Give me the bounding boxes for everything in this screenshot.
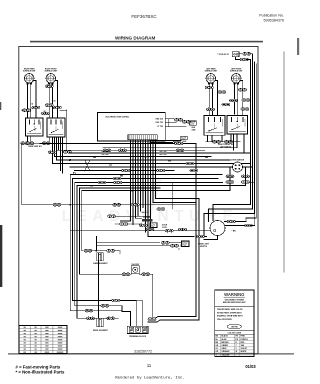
svg-text:SURFACE UNIT: SURFACE UNIT xyxy=(23,70,36,73)
wire to bus xyxy=(247,60,251,63)
terminal block TB xyxy=(127,326,148,333)
svg-text:* TO ELEC IN: * TO ELEC IN xyxy=(217,54,229,56)
electronic oven control EOC xyxy=(97,113,165,141)
svg-text:GRAY: GRAY xyxy=(222,347,228,350)
svg-text:SURFACE UNIT: SURFACE UNIT xyxy=(205,70,218,73)
infinite switch SW4 xyxy=(227,116,248,135)
bus horizontal y147.7 xyxy=(103,147,237,149)
left front surface unit SU2 xyxy=(45,68,58,84)
wires EOC to right connectors xyxy=(165,118,173,120)
power connector J1 xyxy=(232,52,239,57)
page edge artifacts xyxy=(297,38,299,55)
oven lamp assembly xyxy=(131,266,139,274)
connector pairs on bus lines xyxy=(103,149,111,152)
svg-text:BAKE ELEMENT: BAKE ELEMENT xyxy=(93,262,108,265)
oval pairs on left column xyxy=(48,151,56,154)
model table xyxy=(19,326,67,354)
wires SU3 to switch SW3 xyxy=(208,84,210,116)
bake element coil xyxy=(97,252,103,254)
main diagram border box xyxy=(19,47,258,354)
left rear surface unit SU1 xyxy=(23,67,36,84)
wire from right into terminal block xyxy=(155,317,196,319)
lamp right connectors xyxy=(245,224,253,227)
svg-text:10A 125V: 10A 125V xyxy=(131,263,140,266)
wires turning from strip xyxy=(121,220,131,222)
wires SU1 to switch SW1 xyxy=(27,84,29,118)
svg-text:Publication No.: Publication No. xyxy=(259,14,284,18)
svg-text:BROWN: BROWN xyxy=(222,342,230,344)
connector pair second row xyxy=(236,57,241,60)
svg-text:OR/YW: OR/YW xyxy=(231,327,238,329)
svg-text:OVEN VENT NO.: OVEN VENT NO. xyxy=(28,146,43,148)
header rule xyxy=(30,41,263,43)
horizontal bus wires xyxy=(40,143,175,145)
connector pairs above switches xyxy=(23,109,31,112)
lamp bottom line xyxy=(204,236,207,238)
svg-text:YELLOW: YELLOW xyxy=(222,354,230,356)
tiny wire gauge labels xyxy=(93,157,96,158)
broil element connectors xyxy=(87,317,95,320)
svg-text:PINK: PINK xyxy=(241,336,246,338)
sensor lead wires xyxy=(70,174,222,176)
page margin artifact line xyxy=(283,52,285,272)
svg-text:01/03: 01/03 xyxy=(245,364,256,369)
infinite switch SW3 xyxy=(204,116,225,136)
door lock switch box xyxy=(142,219,153,222)
oval row below left switches xyxy=(21,142,29,145)
wire J1 top to right bus xyxy=(249,54,252,60)
svg-text:SURFACE UNIT: SURFACE UNIT xyxy=(45,70,58,73)
oven lamp motor circle xyxy=(210,221,225,236)
L1 terminal xyxy=(182,241,190,247)
lamp connector ovals xyxy=(122,273,130,276)
bake element feed junction xyxy=(84,250,92,253)
lower horizontal from left with ovals xyxy=(47,204,70,206)
watermark leadventure logo xyxy=(136,178,162,217)
wires descending from EOC strip xyxy=(130,140,132,221)
right bus wires xyxy=(250,60,252,205)
lamp bottom wire xyxy=(204,236,218,240)
svg-text:* BK: * BK xyxy=(232,231,237,233)
svg-text:SWITCH: SWITCH xyxy=(200,246,208,248)
footer rule xyxy=(8,353,294,354)
ground strap G1 xyxy=(190,121,196,125)
svg-text:11: 11 xyxy=(147,363,152,368)
svg-text:LT 17B: LT 17B xyxy=(157,126,163,128)
svg-text:LOCK SW: LOCK SW xyxy=(143,217,151,219)
caution oval xyxy=(227,324,241,329)
EOC connector strip P1 xyxy=(128,135,157,140)
right rear surface unit SU3 xyxy=(205,67,218,84)
svg-text:ELECTRONIC OVEN CONTROL: ELECTRONIC OVEN CONTROL xyxy=(106,116,130,118)
svg-text:Rendered by LeadVenture, Inc.: Rendered by LeadVenture, Inc. xyxy=(115,376,185,381)
crossing wires xyxy=(85,160,90,171)
svg-text:WIRING DIAGRAM: WIRING DIAGRAM xyxy=(115,36,155,41)
connector pair below SU2 xyxy=(45,85,53,88)
svg-text:RED 15A: RED 15A xyxy=(156,117,164,120)
wires SU2 to switch SW2 xyxy=(48,84,50,118)
connector pair right of J1 xyxy=(239,53,242,55)
svg-text:TRACER WIRE: WIRE COLOR: TRACER WIRE: WIRE COLOR xyxy=(217,308,243,311)
nested corner wires going down-left xyxy=(70,175,85,311)
svg-text:BEFORE SERVICING UNIT: BEFORE SERVICING UNIT xyxy=(223,302,246,304)
left column wires from switches xyxy=(52,137,54,164)
svg-text:VIOLET: VIOLET xyxy=(241,348,248,350)
svg-text:LOCK: LOCK xyxy=(162,227,168,229)
L1 feed horizontals xyxy=(96,242,159,244)
connector pairs right units xyxy=(205,86,213,89)
svg-text:FEF367BSC: FEF367BSC xyxy=(131,14,157,19)
svg-text:* = Non-Illustrated Parts: * = Non-Illustrated Parts xyxy=(16,370,65,375)
svg-text:PURPLE: PURPLE xyxy=(241,339,249,341)
stubs from switch bottoms xyxy=(27,136,29,143)
junction dots xyxy=(69,159,71,161)
svg-text:L1: L1 xyxy=(178,249,180,251)
sensor leads xyxy=(230,167,233,191)
svg-text:LEFT SW NO.: LEFT SW NO. xyxy=(220,147,232,149)
door lock assembly box xyxy=(150,223,157,228)
svg-text:316250772: 316250772 xyxy=(134,349,152,353)
wire along left border xyxy=(22,143,47,205)
svg-text:BROIL ELEMENT: BROIL ELEMENT xyxy=(93,330,109,332)
svg-text:EXAMPLE: ORGB WIRE WITH: EXAMPLE: ORGB WIRE WITH xyxy=(217,315,243,318)
svg-text:NOTED FIRST, STRIPE NEXT.: NOTED FIRST, STRIPE NEXT. xyxy=(217,312,242,314)
wires SU4 to switch SW4 xyxy=(234,84,236,114)
svg-text:TERMINAL BLOCK: TERMINAL BLOCK xyxy=(129,335,147,338)
svg-text:YELLOW STRIPE.: YELLOW STRIPE. xyxy=(217,319,233,321)
svg-text:SURFACE UNIT: SURFACE UNIT xyxy=(230,70,243,73)
bus turn wires to lamp xyxy=(213,205,251,221)
warning box xyxy=(215,290,254,357)
svg-text:BLUE: BLUE xyxy=(222,339,228,341)
lower pair with box xyxy=(150,140,181,142)
svg-text:GREEN: GREEN xyxy=(222,345,229,347)
oval row below right switches xyxy=(213,141,221,144)
svg-text:ORANGE: ORANGE xyxy=(222,350,231,353)
lock wires xyxy=(115,223,142,225)
svg-text:GND: GND xyxy=(192,129,197,131)
infinite switch SW1 xyxy=(26,118,44,136)
right switch bottom stubs xyxy=(207,135,209,142)
svg-text:5995384376: 5995384376 xyxy=(263,19,284,23)
wire right of SW2 xyxy=(66,110,68,152)
svg-text:W: W xyxy=(236,351,238,353)
svg-text:WARNING: WARNING xyxy=(224,292,244,297)
svg-text:OVEN SENSOR: OVEN SENSOR xyxy=(231,160,245,162)
svg-text:ORG 17B: ORG 17B xyxy=(155,122,163,124)
lower horizontals xyxy=(111,300,136,326)
broil element coil xyxy=(96,317,103,319)
right front surface unit SU4 xyxy=(230,68,243,84)
infinite switch SW2 xyxy=(47,118,65,137)
svg-text:WHITE: WHITE xyxy=(241,351,248,353)
svg-text:BLACK: BLACK xyxy=(222,335,229,338)
